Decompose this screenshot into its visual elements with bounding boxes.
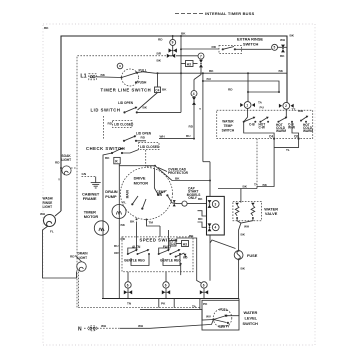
svg-text:WH: WH (138, 324, 144, 328)
svg-text:BK: BK (263, 183, 268, 187)
svg-text:WATER: WATER (244, 310, 258, 315)
water level switch SW6 (212, 309, 231, 328)
svg-text:BU: BU (114, 244, 119, 248)
wire y238 to 6c (177, 238, 202, 283)
wire y161 to connector drop (203, 161, 210, 163)
connector 6a (125, 282, 131, 288)
svg-text:INTERNAL TIMER BUSS: INTERNAL TIMER BUSS (205, 11, 255, 16)
svg-text:RD: RD (228, 88, 233, 92)
capacitor C1 (177, 201, 187, 206)
svg-text:WH: WH (101, 324, 107, 328)
svg-text:RD: RD (141, 136, 146, 140)
wire from lower H3 (176, 243, 182, 245)
svg-text:BK: BK (181, 32, 186, 36)
label H3 box lower (182, 241, 189, 247)
svg-text:RD: RD (198, 217, 203, 221)
svg-text:PROTECTOR: PROTECTOR (168, 171, 189, 175)
wire valve bottoms join (237, 218, 253, 223)
main lower bus (102, 298, 239, 300)
svg-text:BK: BK (241, 233, 246, 237)
node junction on top bus (circled 9 drop) (172, 36, 174, 56)
svg-text:BR: BR (157, 52, 162, 56)
wire 8 up (193, 80, 195, 91)
svg-text:2: 2 (285, 104, 287, 108)
svg-text:BK: BK (198, 197, 203, 201)
lid closed box 1 (113, 121, 135, 128)
svg-text:9: 9 (172, 41, 174, 45)
svg-text:BK: BK (241, 267, 246, 271)
speed switch inner wires (128, 248, 138, 254)
wire fuse down (238, 259, 240, 298)
wire drain light loop (75, 256, 82, 262)
svg-text:BK: BK (279, 69, 284, 73)
svg-text:GN: GN (82, 172, 87, 176)
timer line switch SW1 (122, 69, 144, 86)
wire from switch PULL up-right then to water temp (y73 bus) (143, 72, 287, 73)
svg-text:BK: BK (101, 73, 106, 77)
lid closed box 2 (139, 143, 161, 150)
svg-text:4: 4 (193, 92, 195, 96)
svg-text:TEMP: TEMP (224, 124, 234, 128)
connector 9 (170, 39, 176, 45)
svg-text:MOTOR: MOTOR (84, 214, 99, 219)
lid switch SW4 (123, 135, 146, 142)
svg-text:FL: FL (123, 201, 127, 205)
wire valve to fuse (239, 223, 241, 250)
svg-text:MOTOR: MOTOR (134, 180, 149, 185)
svg-text:SWITCH: SWITCH (243, 41, 259, 46)
svg-text:WATER: WATER (222, 119, 234, 123)
terminal block H3 (186, 61, 194, 67)
wire into water level switch (140, 309, 214, 320)
connector 3 (212, 201, 219, 208)
motor internals: main winding (126, 189, 139, 205)
scan frame (dotted border) (43, 24, 315, 345)
connector 4a (191, 91, 197, 97)
svg-text:BK: BK (44, 26, 49, 30)
speed switch contacts right (158, 249, 181, 255)
svg-text:WARM: WARM (276, 129, 286, 133)
svg-text:WH: WH (298, 109, 304, 113)
connector 2 (283, 102, 290, 109)
motor internals: cent switch (154, 167, 168, 197)
svg-text:BK: BK (209, 69, 214, 73)
svg-text:WH: WH (244, 225, 250, 229)
water valve dashed box (233, 201, 262, 220)
wire capacitor to connector box (187, 203, 206, 205)
svg-text:MAIN: MAIN (126, 189, 130, 198)
wire below box down (209, 235, 211, 281)
lid switch SW3 (123, 107, 181, 114)
wire neutral diagonal to water level (150, 320, 214, 329)
wire 8 down (193, 105, 195, 139)
svg-text:WH: WH (280, 38, 286, 42)
wire lid1 drop to lid2 (103, 116, 105, 140)
svg-text:LEVEL: LEVEL (245, 315, 258, 320)
drain light DS3 (77, 262, 87, 272)
wire from box top to circled 7 (176, 55, 201, 57)
valve solenoid L1 (235, 203, 239, 219)
connector 4 (212, 224, 219, 231)
svg-text:REG: REG (138, 259, 145, 263)
wire drop x203 bus to y161 (202, 73, 204, 162)
svg-text:C-B: C-B (249, 123, 255, 127)
svg-text:GENTLE: GENTLE (124, 259, 137, 263)
wire temp out right step (274, 139, 299, 148)
water temp switch dashed box (217, 110, 313, 138)
svg-text:6: 6 (203, 283, 205, 287)
wire right leg down (118, 166, 120, 299)
junction arrows under 7 (199, 60, 203, 68)
junction arrows at 5 (281, 45, 285, 53)
wire cent sw out to capacitor (167, 195, 177, 203)
temp switch outputs (273, 138, 275, 140)
svg-text:RD: RD (212, 45, 217, 49)
svg-text:TM: TM (149, 221, 154, 225)
svg-text:BK: BK (290, 34, 295, 38)
svg-text:L1: L1 (80, 74, 86, 80)
junction arrows at 3 (208, 200, 212, 208)
water level switch box (202, 300, 239, 330)
wire valve feeds top (240, 189, 242, 203)
internal timer buss annotation (175, 11, 255, 16)
svg-text:RD: RD (55, 161, 60, 165)
svg-text:BK: BK (157, 59, 162, 63)
svg-text:BK: BK (130, 220, 135, 224)
wire drop to 1 (247, 73, 249, 101)
speed switch contacts left (127, 249, 150, 255)
wash rinse light DS2 (44, 215, 56, 227)
svg-text:H3: H3 (183, 242, 187, 246)
svg-text:PK: PK (203, 302, 208, 306)
timer internal dashed box (77, 56, 200, 308)
svg-text:H3: H3 (187, 62, 191, 66)
svg-text:FRAME: FRAME (83, 196, 97, 201)
motor internals: aux winding (141, 199, 146, 210)
soak light DS1 (62, 166, 71, 175)
svg-text:6: 6 (165, 283, 167, 287)
svg-text:5: 5 (274, 46, 276, 50)
svg-text:TL: TL (286, 148, 290, 152)
svg-text:VALVE: VALVE (265, 211, 278, 216)
svg-text:SWITCH: SWITCH (243, 321, 259, 326)
svg-text:TIMER LINE SWITCH: TIMER LINE SWITCH (101, 88, 152, 93)
wire diagonal C4 to lid1 arm (138, 93, 158, 111)
wire soak light taps (71, 167, 77, 169)
junction arrows under 6c (200, 290, 208, 294)
wire check switch to motor top (119, 164, 155, 166)
svg-text:RD: RD (121, 237, 126, 241)
svg-text:BK: BK (105, 156, 110, 160)
svg-text:C-W: C-W (259, 126, 265, 130)
wire drop bus to lid1 (x181) (180, 36, 182, 112)
svg-text:RD: RD (70, 255, 75, 259)
svg-text:N: N (78, 326, 82, 332)
svg-text:BK: BK (175, 176, 180, 180)
wire H3 stubs (181, 63, 186, 65)
svg-text:PK: PK (161, 302, 166, 306)
svg-text:EMPTY: EMPTY (219, 325, 231, 329)
wire temp out left down to valve (257, 139, 274, 189)
relay box R (114, 157, 120, 163)
svg-text:PU: PU (260, 106, 265, 110)
wire extra rinse row (181, 48, 219, 50)
svg-text:PUSH: PUSH (138, 80, 148, 84)
svg-text:BK: BK (189, 234, 194, 238)
svg-text:OR: OR (114, 251, 119, 255)
svg-text:SWITCH: SWITCH (222, 129, 235, 133)
svg-text:7: 7 (200, 54, 202, 58)
svg-text:1: 1 (246, 103, 248, 107)
svg-text:FUSE: FUSE (247, 253, 258, 258)
temp switch inner rails (244, 122, 274, 139)
svg-text:BK: BK (121, 223, 126, 227)
wire water level to fuse line (226, 299, 239, 316)
connector 7 (198, 53, 204, 59)
svg-text:3: 3 (215, 202, 217, 206)
temp switch contacts group B (276, 109, 313, 133)
speed switch contacts group3 (175, 253, 187, 275)
terminal circle C on timer line switch (117, 63, 123, 69)
plug P1 (89, 74, 97, 80)
valve solenoid L2 (251, 203, 255, 219)
junction arrows at 4 (208, 223, 212, 231)
wire drops below bus (158, 299, 160, 308)
svg-text:RD: RD (158, 38, 163, 42)
svg-text:CHECK SWITCH: CHECK SWITCH (86, 146, 125, 151)
junction arrows at 2 (279, 104, 294, 108)
temp switch contacts group A (243, 108, 295, 129)
wire top bus L1 (61, 36, 287, 211)
svg-text:W-W: W-W (288, 126, 295, 130)
wires into connector box (198, 211, 207, 216)
svg-text:FULL: FULL (220, 308, 228, 312)
wire extra rinse to connector 5 (242, 48, 272, 50)
svg-text:WH: WH (160, 135, 166, 139)
svg-text:BK: BK (162, 88, 167, 92)
extra rinse switch SW2 (219, 46, 242, 54)
motor bottom terminals (136, 218, 138, 220)
wire dashed link lid2 to motor (146, 150, 154, 167)
svg-text:TT: TT (292, 108, 296, 112)
svg-text:6: 6 (127, 283, 129, 287)
svg-text:FL: FL (50, 230, 54, 234)
junction arrows under 8 (192, 97, 196, 105)
svg-text:LID OPEN: LID OPEN (118, 101, 134, 105)
svg-text:BU: BU (186, 134, 191, 138)
wire aux path (147, 220, 161, 227)
wire 7 down and to extra rinse (194, 67, 201, 80)
svg-text:LID CLOSED: LID CLOSED (140, 145, 160, 149)
connector 6c (201, 282, 207, 288)
wire motor to speed switch feeds (136, 222, 138, 251)
ground cabinet frame (91, 177, 101, 188)
svg-text:BU: BU (207, 77, 212, 81)
terminal box T1 (170, 241, 176, 247)
cap start caption (187, 186, 201, 200)
junction arrows under 9 (169, 48, 177, 52)
terminal box C4 (155, 87, 161, 93)
svg-text:LIGHT: LIGHT (62, 158, 72, 162)
wire drop bus to C4 box (x157.5) (157, 73, 159, 87)
plug P2 (88, 326, 97, 331)
wire motor top to right (155, 166, 210, 181)
svg-text:LID SWITCH: LID SWITCH (91, 108, 121, 113)
wire TA drop from temp box (256, 139, 258, 183)
wire lid2 to down-right (159, 138, 194, 140)
junction arrows under 6b (162, 290, 170, 294)
wire drop into connector box (209, 162, 211, 197)
wire speed sw drops to connectors (127, 272, 129, 282)
fuse F1 (234, 250, 243, 261)
wire stems under connectors (127, 288, 129, 298)
svg-text:C6: C6 (294, 134, 298, 138)
check switch SW5 (111, 148, 139, 154)
svg-text:C4: C4 (269, 134, 273, 138)
connector 5 (272, 44, 278, 50)
junction arrows under 6a (124, 290, 132, 294)
wire ground lead (82, 176, 96, 178)
pressure switch arm to fuse (210, 240, 236, 249)
svg-text:4: 4 (215, 226, 217, 230)
svg-text:WARM: WARM (303, 129, 313, 133)
wire y81 row (BU) (203, 81, 279, 92)
drain pump M2 (112, 205, 126, 219)
svg-text:LID CLOSED: LID CLOSED (114, 123, 134, 127)
wire left leg down (103, 153, 112, 299)
svg-text:BK: BK (243, 184, 248, 188)
svg-text:GENTLE: GENTLE (160, 259, 173, 263)
svg-text:RD: RD (108, 122, 113, 126)
svg-text:BK: BK (280, 54, 285, 58)
speed switch dashed box (122, 237, 193, 272)
timer motor M1 (94, 221, 108, 235)
wire wash light down and around (43, 226, 77, 278)
connector 6b (163, 282, 169, 288)
overload protector caption (158, 167, 189, 175)
svg-text:WH: WH (40, 212, 46, 216)
wire neutral dotted run (84, 327, 88, 329)
wire L1 to timer line switch (96, 76, 121, 79)
svg-text:RD: RD (189, 125, 194, 129)
connector box (3,4) (207, 196, 225, 235)
svg-text:LIGHT: LIGHT (43, 205, 53, 209)
svg-text:C4: C4 (171, 242, 175, 246)
svg-text:PUMP: PUMP (105, 194, 117, 199)
wire 5 to right bus (278, 46, 287, 48)
connector 1 (244, 102, 251, 109)
drive motor M3 (121, 168, 173, 220)
svg-text:C4: C4 (155, 88, 159, 92)
junction on timer box top (167, 54, 175, 58)
svg-text:ONLY: ONLY (188, 196, 197, 200)
svg-text:BK: BK (143, 106, 148, 110)
junction arrows at 1 (240, 103, 255, 107)
